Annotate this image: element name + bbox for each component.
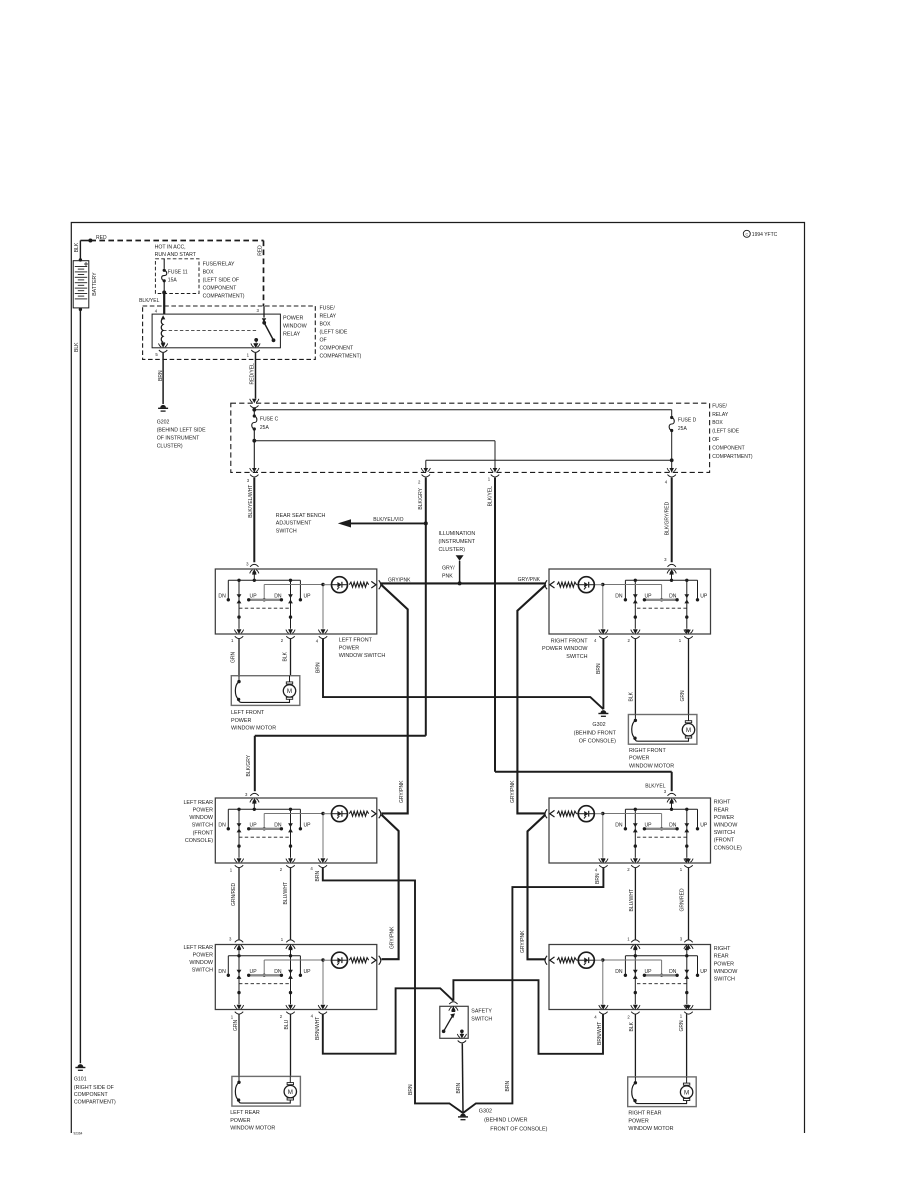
- svg-text:BOX: BOX: [203, 270, 214, 276]
- svg-text:G302: G302: [592, 722, 605, 728]
- svg-text:BLU/WHT: BLU/WHT: [629, 889, 635, 912]
- svg-text:RUN AND START: RUN AND START: [155, 252, 197, 258]
- svg-text:WINDOW: WINDOW: [714, 969, 739, 975]
- svg-text:OF: OF: [320, 338, 327, 344]
- svg-text:GRN: GRN: [233, 1020, 239, 1032]
- svg-text:BLK: BLK: [283, 651, 289, 661]
- svg-text:COMPARTMENT): COMPARTMENT): [320, 354, 362, 360]
- svg-text:92364: 92364: [74, 1132, 83, 1136]
- svg-text:DN: DN: [218, 969, 226, 975]
- svg-text:BRN: BRN: [595, 873, 601, 884]
- svg-text:BLK/GRY: BLK/GRY: [246, 754, 252, 776]
- svg-text:BLK/YEL: BLK/YEL: [487, 486, 493, 507]
- svg-text:UP: UP: [700, 823, 708, 829]
- svg-text:(BEHIND LOWER: (BEHIND LOWER: [484, 1118, 528, 1124]
- svg-text:G302: G302: [479, 1109, 492, 1115]
- svg-text:UP: UP: [700, 969, 708, 975]
- svg-text:(RIGHT SIDE OF: (RIGHT SIDE OF: [74, 1085, 114, 1091]
- svg-text:OF CONSOLE): OF CONSOLE): [579, 739, 616, 745]
- svg-text:UP: UP: [303, 823, 311, 829]
- svg-text:GRN: GRN: [679, 1020, 685, 1032]
- svg-text:WINDOW MOTOR: WINDOW MOTOR: [629, 763, 674, 769]
- svg-text:BOX: BOX: [320, 322, 331, 328]
- svg-text:SAFETY: SAFETY: [471, 1009, 492, 1015]
- svg-text:M: M: [684, 1089, 689, 1096]
- svg-text:FUSE D: FUSE D: [678, 418, 697, 424]
- svg-text:RED: RED: [258, 245, 264, 256]
- svg-text:GRY/PNK: GRY/PNK: [520, 930, 526, 953]
- svg-text:RELAY: RELAY: [320, 314, 337, 320]
- svg-text:DN: DN: [274, 594, 282, 600]
- svg-text:COMPARTMENT): COMPARTMENT): [74, 1099, 116, 1105]
- svg-text:PNK: PNK: [442, 574, 453, 580]
- svg-text:POWER: POWER: [714, 815, 734, 821]
- svg-text:FUSE/RELAY: FUSE/RELAY: [203, 262, 235, 268]
- svg-text:BRN: BRN: [505, 1081, 511, 1092]
- svg-text:C: C: [745, 233, 748, 237]
- svg-text:SWITCH: SWITCH: [192, 823, 213, 829]
- svg-text:WINDOW: WINDOW: [283, 324, 308, 330]
- svg-text:CONSOLE): CONSOLE): [714, 845, 742, 851]
- svg-text:BATTERY: BATTERY: [92, 272, 98, 296]
- svg-text:LEFT REAR: LEFT REAR: [183, 945, 213, 951]
- svg-text:LEFT FRONT: LEFT FRONT: [339, 638, 373, 644]
- svg-text:POWER WINDOW: POWER WINDOW: [542, 646, 588, 652]
- svg-text:BLU: BLU: [284, 1019, 290, 1029]
- svg-text:UP: UP: [303, 969, 311, 975]
- svg-text:GRY/PNK: GRY/PNK: [518, 577, 541, 583]
- svg-text:UP: UP: [250, 823, 258, 829]
- svg-text:RIGHT FRONT: RIGHT FRONT: [629, 748, 666, 754]
- svg-text:COMPONENT: COMPONENT: [712, 445, 745, 451]
- svg-text:SWITCH: SWITCH: [714, 830, 735, 836]
- svg-text:POWER: POWER: [230, 1118, 250, 1124]
- svg-text:RIGHT: RIGHT: [714, 800, 731, 806]
- svg-text:(INSTRUMENT: (INSTRUMENT: [439, 539, 476, 545]
- svg-text:FUSE 11: FUSE 11: [168, 270, 188, 276]
- svg-text:BLK: BLK: [74, 342, 80, 352]
- svg-text:M: M: [287, 688, 292, 695]
- svg-text:BRN: BRN: [316, 662, 322, 673]
- svg-text:POWER: POWER: [629, 756, 649, 762]
- svg-text:POWER: POWER: [339, 645, 359, 651]
- svg-text:POWER: POWER: [628, 1118, 648, 1124]
- svg-text:COMPONENT: COMPONENT: [203, 286, 238, 292]
- svg-text:RIGHT REAR: RIGHT REAR: [628, 1111, 661, 1117]
- svg-text:WINDOW MOTOR: WINDOW MOTOR: [628, 1126, 673, 1132]
- svg-text:ADJUSTMENT: ADJUSTMENT: [276, 521, 312, 527]
- svg-text:UP: UP: [303, 594, 311, 600]
- svg-text:FUSE/: FUSE/: [320, 306, 336, 312]
- svg-text:GRN: GRN: [680, 690, 686, 702]
- svg-text:BRN: BRN: [596, 663, 602, 674]
- svg-text:CONSOLE): CONSOLE): [185, 838, 213, 844]
- svg-text:RED/YEL: RED/YEL: [249, 363, 255, 385]
- svg-text:UP: UP: [250, 594, 258, 600]
- svg-text:DN: DN: [669, 823, 677, 829]
- svg-text:UP: UP: [644, 823, 652, 829]
- svg-text:COMPONENT: COMPONENT: [74, 1092, 109, 1098]
- svg-text:(FRONT: (FRONT: [714, 838, 735, 844]
- svg-text:WINDOW MOTOR: WINDOW MOTOR: [230, 1126, 275, 1132]
- svg-text:BLK/YEL: BLK/YEL: [139, 298, 160, 304]
- svg-text:POWER: POWER: [714, 961, 734, 967]
- svg-text:FRONT OF CONSOLE): FRONT OF CONSOLE): [490, 1126, 547, 1132]
- svg-text:DN: DN: [615, 594, 623, 600]
- svg-text:WINDOW MOTOR: WINDOW MOTOR: [231, 726, 276, 732]
- svg-text:RELAY: RELAY: [712, 412, 729, 418]
- svg-text:BRN: BRN: [158, 370, 164, 381]
- svg-text:RIGHT: RIGHT: [714, 946, 731, 952]
- svg-text:GRY/PNK: GRY/PNK: [399, 780, 405, 803]
- svg-text:FUSE C: FUSE C: [260, 417, 279, 423]
- svg-text:BLK/YEL: BLK/YEL: [645, 783, 666, 789]
- svg-text:BLK/GRY: BLK/GRY: [418, 487, 424, 509]
- svg-text:COMPONENT: COMPONENT: [320, 346, 355, 352]
- svg-text:SWITCH: SWITCH: [714, 977, 735, 983]
- svg-text:DN: DN: [274, 823, 282, 829]
- svg-text:FUSE/: FUSE/: [712, 403, 727, 409]
- svg-text:RED: RED: [96, 235, 107, 241]
- svg-text:LEFT REAR: LEFT REAR: [183, 800, 213, 806]
- svg-text:ILLUMINATION: ILLUMINATION: [439, 531, 476, 537]
- svg-text:DN: DN: [669, 969, 677, 975]
- svg-text:COMPARTMENT): COMPARTMENT): [203, 294, 245, 300]
- svg-text:(LEFT SIDE OF: (LEFT SIDE OF: [203, 278, 240, 284]
- svg-text:LEFT FRONT: LEFT FRONT: [231, 710, 265, 716]
- svg-text:WINDOW SWITCH: WINDOW SWITCH: [339, 653, 386, 659]
- svg-text:BLK/YEL/WHT: BLK/YEL/WHT: [248, 485, 254, 518]
- svg-text:OF INSTRUMENT: OF INSTRUMENT: [157, 436, 200, 442]
- svg-text:CLUSTER): CLUSTER): [157, 444, 183, 450]
- svg-text:CLUSTER): CLUSTER): [439, 547, 466, 553]
- svg-text:SWITCH: SWITCH: [471, 1016, 492, 1022]
- svg-text:DN: DN: [218, 823, 226, 829]
- svg-text:BLK: BLK: [629, 1021, 635, 1031]
- svg-text:GRY/PNK: GRY/PNK: [510, 780, 516, 803]
- svg-text:RIGHT FRONT: RIGHT FRONT: [551, 638, 588, 644]
- svg-text:WINDOW: WINDOW: [189, 960, 214, 966]
- svg-text:BRN/WHT: BRN/WHT: [597, 1022, 603, 1045]
- svg-text:G202: G202: [157, 420, 170, 426]
- svg-text:(BEHIND FRONT: (BEHIND FRONT: [574, 730, 617, 736]
- svg-text:REAR: REAR: [714, 954, 729, 960]
- svg-text:LEFT REAR: LEFT REAR: [230, 1110, 260, 1116]
- svg-text:BLU/WHT: BLU/WHT: [283, 882, 289, 905]
- svg-text:WINDOW: WINDOW: [714, 823, 739, 829]
- svg-text:UP: UP: [644, 594, 652, 600]
- svg-text:(LEFT SIDE: (LEFT SIDE: [712, 429, 740, 435]
- svg-text:(BEHIND LEFT SIDE: (BEHIND LEFT SIDE: [157, 428, 206, 434]
- svg-text:G101: G101: [74, 1077, 87, 1083]
- svg-text:COMPARTMENT): COMPARTMENT): [712, 454, 753, 460]
- svg-text:BOX: BOX: [712, 420, 723, 426]
- svg-text:DN: DN: [274, 969, 282, 975]
- svg-text:WINDOW: WINDOW: [189, 815, 214, 821]
- svg-text:25A: 25A: [260, 425, 270, 431]
- svg-text:GRY/PNK: GRY/PNK: [388, 577, 411, 583]
- svg-text:DN: DN: [615, 823, 623, 829]
- svg-text:25A: 25A: [678, 426, 688, 432]
- svg-text:BLK/YEL/VIO: BLK/YEL/VIO: [373, 517, 403, 523]
- svg-text:BLK: BLK: [74, 242, 80, 252]
- svg-text:BRN: BRN: [456, 1083, 462, 1094]
- svg-text:SWITCH: SWITCH: [276, 528, 297, 534]
- svg-text:BRN: BRN: [408, 1084, 414, 1095]
- svg-text:POWER: POWER: [193, 808, 213, 814]
- svg-text:POWER: POWER: [283, 316, 303, 322]
- svg-text:SWITCH: SWITCH: [192, 968, 213, 974]
- svg-text:M: M: [686, 727, 691, 734]
- svg-text:BRN: BRN: [315, 871, 321, 882]
- svg-text:RELAY: RELAY: [283, 332, 301, 338]
- svg-text:15A: 15A: [168, 277, 178, 283]
- svg-text:POWER: POWER: [193, 953, 213, 959]
- svg-text:POWER: POWER: [231, 718, 251, 724]
- svg-text:GRY/: GRY/: [442, 566, 455, 572]
- svg-text:1994 YFTC: 1994 YFTC: [752, 232, 778, 238]
- svg-text:UP: UP: [700, 594, 708, 600]
- svg-text:GRN: GRN: [231, 652, 237, 664]
- svg-text:HOT IN ACC,: HOT IN ACC,: [155, 245, 186, 251]
- svg-text:UP: UP: [250, 969, 258, 975]
- svg-text:BLK/GRY/RED: BLK/GRY/RED: [665, 501, 671, 535]
- svg-text:REAR SEAT BENCH: REAR SEAT BENCH: [276, 513, 326, 519]
- svg-text:SWITCH: SWITCH: [566, 654, 587, 660]
- svg-text:BRN/WHT: BRN/WHT: [315, 1017, 321, 1040]
- svg-text:(LEFT SIDE: (LEFT SIDE: [320, 330, 348, 336]
- svg-text:(FRONT: (FRONT: [193, 830, 214, 836]
- svg-text:M: M: [288, 1089, 293, 1096]
- svg-text:REAR: REAR: [714, 807, 729, 813]
- svg-text:GRN/RED: GRN/RED: [231, 883, 237, 906]
- svg-text:OF: OF: [712, 437, 719, 443]
- svg-text:BLK: BLK: [629, 691, 635, 701]
- svg-text:DN: DN: [669, 594, 677, 600]
- svg-text:DN: DN: [615, 969, 623, 975]
- svg-text:GRY/PNK: GRY/PNK: [390, 926, 396, 949]
- svg-text:DN: DN: [218, 594, 226, 600]
- svg-text:UP: UP: [644, 969, 652, 975]
- svg-text:GRN/RED: GRN/RED: [680, 888, 686, 911]
